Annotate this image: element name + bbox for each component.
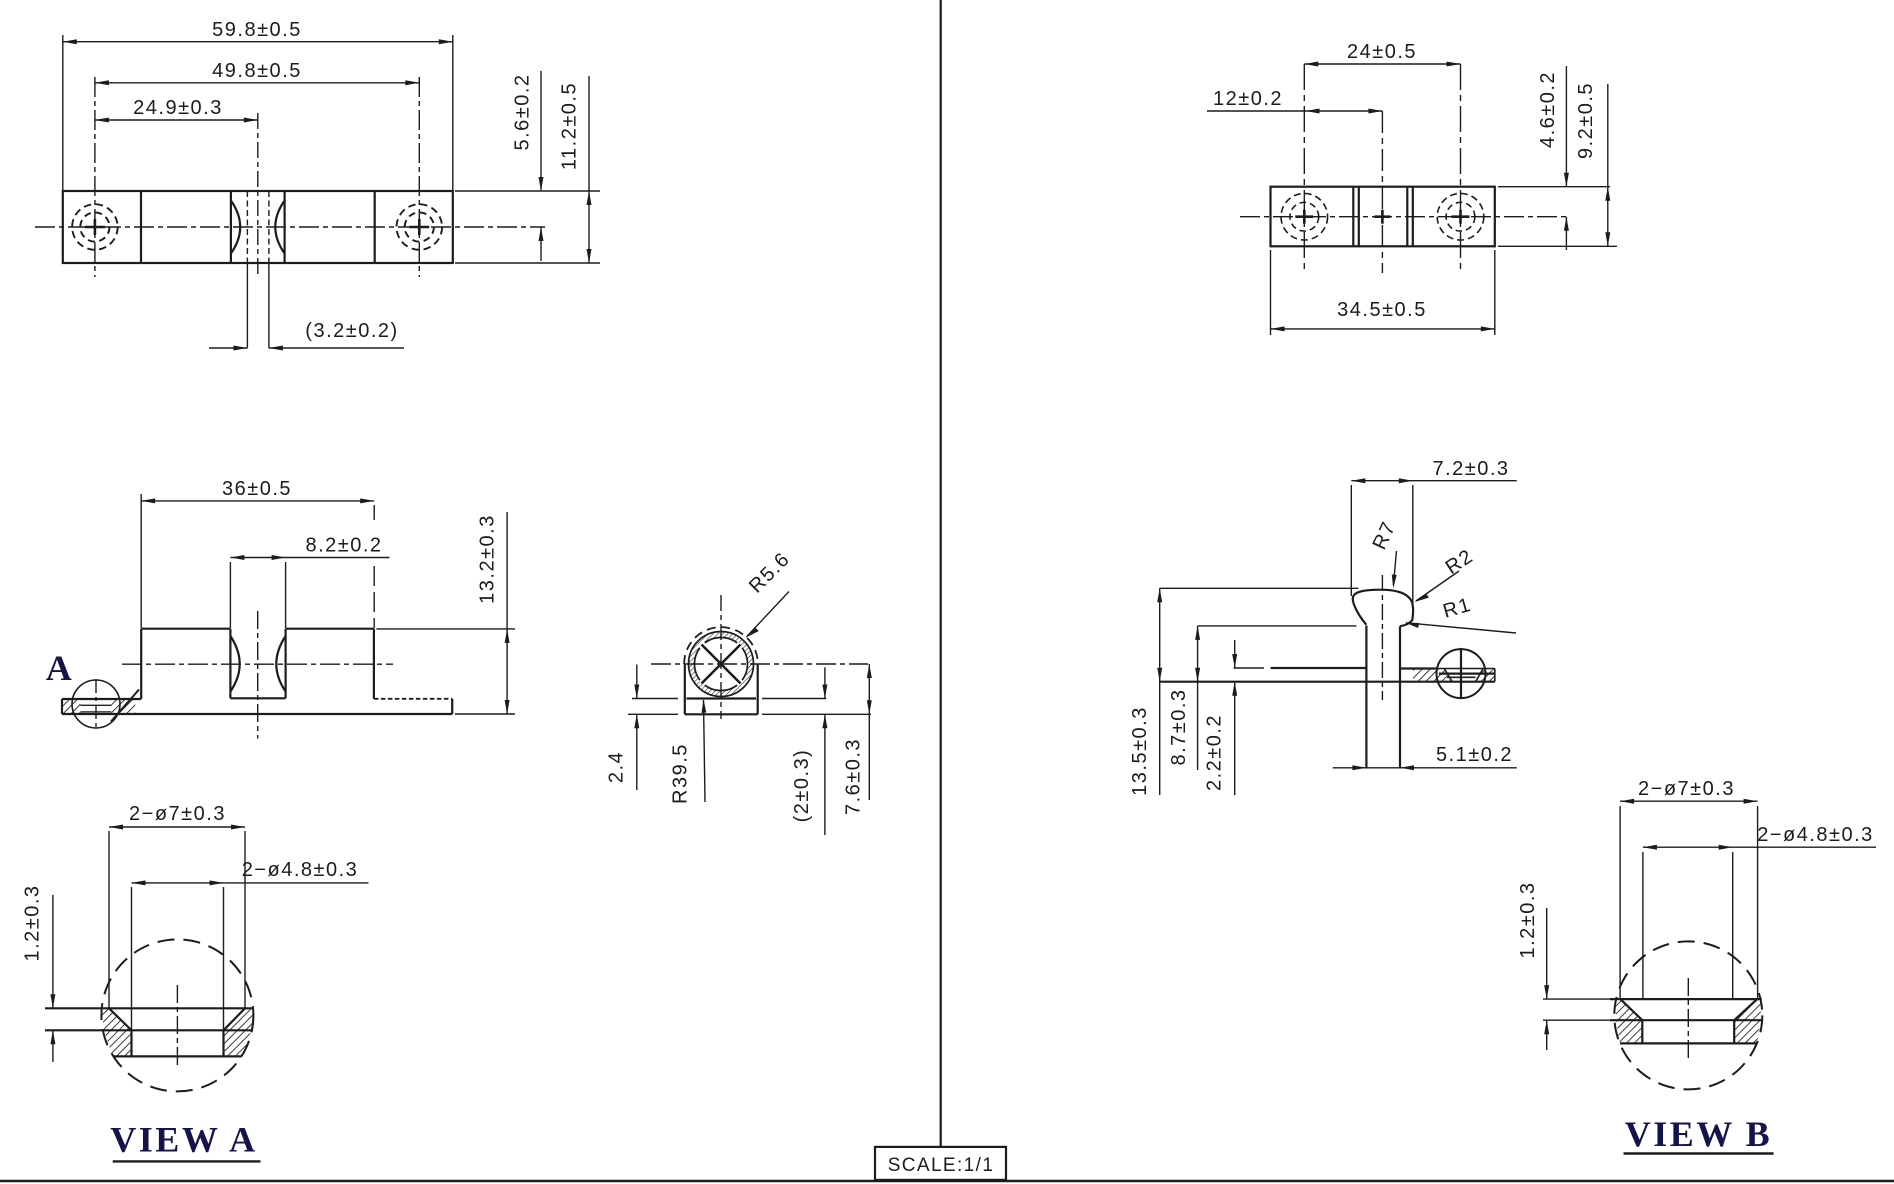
svg-text:VIEW B: VIEW B	[1625, 1114, 1772, 1154]
dim 2-dia4.8 line	[132, 882, 369, 884]
svg-text:13.5±0.3: 13.5±0.3	[1129, 706, 1151, 796]
hole vertical centerline	[176, 985, 178, 1068]
double divider lines left	[1352, 187, 1354, 247]
right tab right edge	[451, 699, 453, 714]
dim 13.5 top extension	[1160, 587, 1359, 589]
bottom edge extension right	[1498, 245, 1617, 247]
svg-text:5.1±0.2: 5.1±0.2	[1436, 744, 1513, 766]
dim 2.2 line	[1234, 640, 1236, 668]
sheet bottom / far rim shoulder line	[1610, 1019, 1762, 1021]
inner bottom extension left	[632, 698, 678, 700]
section hatch right	[1734, 999, 1761, 1043]
roller tube inner circle	[695, 638, 748, 691]
hole section top line	[81, 704, 112, 706]
bottom border line	[0, 1180, 1894, 1183]
notch right edge	[284, 191, 286, 263]
dim 36 extension lines	[140, 494, 142, 628]
dim 1.2 extension lines	[1543, 998, 1610, 1000]
svg-text:R7: R7	[1369, 518, 1401, 553]
striker head outline	[1353, 590, 1413, 627]
outer bottom extension left	[628, 713, 678, 715]
top edge extension right	[1498, 186, 1610, 188]
svg-text:5.6±0.2: 5.6±0.2	[512, 73, 534, 150]
left hole vertical centerline	[94, 77, 96, 277]
serrated tab top edge	[374, 698, 452, 700]
housing dome arc (hidden)	[684, 627, 758, 664]
leader R1	[1406, 623, 1516, 633]
leader R2	[1416, 571, 1459, 601]
hole left hidden countersink circle	[72, 204, 118, 250]
screw vertical centerline	[1460, 648, 1462, 699]
leader R7	[1393, 551, 1396, 585]
dimple bottom face	[1620, 1042, 1757, 1044]
top edge extension right	[455, 190, 600, 192]
svg-text:SCALE:1/1: SCALE:1/1	[888, 1155, 995, 1176]
svg-text:R5.6: R5.6	[745, 548, 795, 598]
roller silhouette arc right	[275, 201, 284, 254]
svg-text:R2: R2	[1442, 545, 1478, 579]
svg-text:A: A	[46, 648, 75, 688]
roller tube outer circle	[689, 632, 754, 697]
hatch strip top edge	[1413, 668, 1495, 670]
roller cross line 1	[702, 645, 741, 684]
dim 3.2 line left segment	[209, 347, 247, 349]
dim 8.2 extension lines	[229, 562, 231, 628]
detail crop circle A	[101, 939, 253, 1091]
hole right hidden countersink circle	[1437, 193, 1484, 240]
dim 2-dia7 line	[1620, 800, 1758, 802]
dim 34.5 extension lines	[1270, 250, 1272, 335]
screw countersink slope left	[1444, 669, 1452, 682]
roller arc right	[276, 636, 285, 692]
section hatch right of hole	[111, 700, 135, 714]
hole left center mark	[85, 226, 105, 229]
svg-text:59.8±0.5: 59.8±0.5	[212, 19, 302, 41]
dim 8.2 line	[230, 557, 389, 559]
roller tube section hatch annulus	[689, 632, 754, 697]
svg-text:7.6±0.3: 7.6±0.3	[843, 738, 865, 815]
section hatch right	[224, 1008, 253, 1056]
bore wall left	[130, 1030, 132, 1056]
middle center mark	[1374, 215, 1390, 218]
hole left hidden countersink circle	[1281, 193, 1328, 240]
countersink slope left	[109, 1008, 132, 1030]
dim 12 line	[1207, 110, 1382, 112]
svg-text:R1: R1	[1441, 594, 1475, 623]
vertical centerline	[257, 611, 259, 739]
dim 2-dia7 extension lines	[108, 831, 110, 1008]
dim 1.2 line	[52, 895, 54, 1008]
dim 8.7 line	[1197, 626, 1199, 770]
dim 3.2 line right segment	[269, 347, 404, 349]
svg-text:2−ø4.8±0.3: 2−ø4.8±0.3	[1757, 824, 1874, 846]
plate section hatch right of screw	[1476, 669, 1495, 682]
svg-text:4.6±0.2: 4.6±0.2	[1537, 71, 1559, 148]
dim 8.7 extension	[1198, 625, 1357, 627]
bore wall left	[1641, 1020, 1643, 1043]
screw horizontal centerline	[1439, 672, 1495, 674]
dim 4.6 line	[1565, 66, 1567, 186]
svg-text:7.2±0.3: 7.2±0.3	[1432, 458, 1509, 480]
dim 9.2 line	[1607, 84, 1609, 246]
svg-text:11.2±0.5: 11.2±0.5	[559, 82, 581, 170]
svg-text:1.2±0.3: 1.2±0.3	[22, 884, 44, 961]
dim 11.2 line	[588, 76, 590, 263]
dim 2-dia4.8 extension lines	[1642, 852, 1644, 999]
svg-text:34.5±0.5: 34.5±0.5	[1337, 299, 1427, 321]
svg-text:8.7±0.3: 8.7±0.3	[1168, 688, 1190, 765]
section divider line	[374, 191, 376, 263]
part body outline (rear view bar)	[1271, 187, 1495, 247]
detail circle A	[72, 680, 120, 728]
double divider lines right	[1406, 187, 1408, 247]
leader R5.6	[747, 592, 790, 637]
dim 5.6 line	[540, 71, 542, 190]
svg-text:2−ø7±0.3: 2−ø7±0.3	[1638, 778, 1735, 800]
dim 7.6 line	[868, 664, 870, 800]
stem dashed centerline	[1381, 575, 1383, 700]
right hole vertical centerline	[1460, 64, 1462, 273]
hole vertical centerline in detail	[95, 679, 97, 729]
housing right wall	[757, 664, 759, 714]
horizontal centerline	[122, 663, 393, 665]
svg-text:36±0.5: 36±0.5	[222, 478, 292, 500]
screw head slot line	[1447, 676, 1476, 678]
horizontal centerline	[651, 663, 868, 665]
svg-text:2.4: 2.4	[606, 751, 628, 783]
housing outer bottom	[685, 713, 758, 715]
left tab left edge	[61, 699, 63, 714]
svg-text:9.2±0.5: 9.2±0.5	[1575, 82, 1597, 159]
svg-text:13.2±0.3: 13.2±0.3	[477, 514, 499, 604]
vertical centerline	[720, 595, 722, 719]
countersink slope left	[1620, 999, 1642, 1020]
dim 2-dia7 extension lines	[1619, 806, 1621, 999]
right hole vertical centerline	[418, 77, 420, 277]
svg-text:24.9±0.3: 24.9±0.3	[133, 97, 223, 119]
VIEW B underline	[1624, 1152, 1774, 1154]
dim 2-dia4.8 line	[1643, 846, 1876, 848]
bore wall right	[222, 1030, 224, 1056]
plate section hatch left of screw	[1413, 669, 1452, 682]
sheet divider line	[940, 0, 942, 1147]
inner bottom extension right	[762, 698, 826, 700]
bore wall right	[1733, 1020, 1735, 1043]
svg-text:49.8±0.5: 49.8±0.5	[212, 60, 302, 82]
left tab top edge	[62, 698, 141, 700]
dim 36 line	[141, 500, 374, 502]
plate right end edge	[1494, 669, 1496, 682]
svg-text:8.2±0.2: 8.2±0.2	[305, 535, 382, 557]
VIEW A underline	[113, 1160, 261, 1162]
dim (2 +-0.3) line	[824, 667, 826, 698]
hole right center mark	[1452, 215, 1470, 218]
svg-text:1.2±0.3: 1.2±0.3	[1517, 881, 1539, 958]
dim 2-dia4.8 extension lines	[131, 887, 133, 1030]
svg-text:12±0.2: 12±0.2	[1213, 88, 1283, 110]
svg-text:2−ø7±0.3: 2−ø7±0.3	[129, 803, 226, 825]
horizontal centerline	[1240, 216, 1568, 218]
svg-text:2.2±0.2: 2.2±0.2	[1204, 714, 1226, 791]
dim 1.2 line	[1546, 908, 1548, 999]
section hatch left	[102, 1008, 132, 1056]
dim 13.5 line	[1159, 588, 1161, 795]
screw head circle	[1437, 649, 1486, 698]
slot extension lines below part	[246, 263, 248, 348]
middle vertical centerline	[1381, 111, 1383, 273]
part body outline (front view bar)	[63, 191, 453, 263]
hole right hidden countersink circle	[397, 204, 443, 250]
sheet top surface line	[45, 1007, 253, 1009]
left hole vertical centerline	[1303, 64, 1305, 273]
roller silhouette arc left	[231, 201, 240, 254]
hole left center mark	[1295, 215, 1313, 218]
hole left hidden bore circle	[1290, 202, 1319, 231]
dim 2.4 line	[636, 665, 638, 699]
dim 13.2 extension lines	[376, 628, 515, 630]
notch vertical centerline	[257, 113, 259, 277]
hidden slot edge right	[268, 191, 270, 263]
svg-text:(3.2±0.2): (3.2±0.2)	[305, 320, 398, 342]
svg-text:2−ø4.8±0.3: 2−ø4.8±0.3	[242, 859, 359, 881]
outer bottom extension right	[762, 713, 871, 715]
bottom edge extension right	[455, 262, 600, 264]
dim 34.5 line	[1271, 328, 1495, 330]
slot right edge	[285, 629, 287, 699]
top face right segment	[286, 628, 374, 630]
dim 59.8 extension lines	[62, 35, 64, 190]
section hatch left of hole	[63, 700, 81, 714]
plate top left segment	[1234, 667, 1264, 669]
leader R39.5	[704, 700, 706, 802]
stem left edge	[1365, 626, 1367, 768]
dim 59.8 line	[63, 41, 453, 43]
dim 24.9 line	[95, 119, 258, 121]
sheet top surface line	[1610, 998, 1762, 1000]
svg-text:(2±0.3): (2±0.3)	[791, 749, 813, 823]
svg-text:24±0.5: 24±0.5	[1347, 41, 1417, 63]
hole vertical centerline	[1687, 978, 1689, 1058]
dim 7.2 extension lines	[1350, 485, 1352, 596]
notch left edge	[230, 191, 232, 263]
hole right hidden bore circle	[405, 212, 434, 241]
countersink slope right	[1734, 999, 1757, 1020]
right body edge	[373, 629, 375, 699]
dimple bottom face	[113, 1055, 242, 1057]
dim 7.2 line	[1351, 480, 1517, 482]
slot left edge	[229, 629, 231, 699]
countersink slope right	[224, 1008, 246, 1030]
roller cross white halo	[702, 645, 741, 684]
detail crop circle B	[1614, 941, 1762, 1089]
plate top right segment	[1401, 667, 1438, 669]
housing inner bottom	[687, 697, 757, 699]
dim 24 line	[1304, 63, 1460, 65]
stem right edge	[1399, 626, 1401, 768]
left body edge	[140, 629, 142, 699]
section cut diagonal line	[111, 690, 139, 722]
roller arc left	[230, 636, 239, 692]
horizontal centerline	[35, 226, 545, 228]
hole section bottom line	[81, 711, 112, 713]
svg-text:R39.5: R39.5	[670, 743, 692, 804]
top face left segment	[141, 628, 230, 630]
slot bottom	[230, 697, 285, 699]
plate bottom line	[1160, 681, 1495, 683]
sheet bottom / far rim shoulder line	[45, 1029, 253, 1031]
bottom face	[62, 713, 452, 715]
hole right center mark	[409, 226, 429, 229]
housing left wall	[684, 664, 686, 714]
hidden slot edge left	[246, 191, 248, 263]
screw countersink slope right	[1476, 669, 1483, 682]
hole right hidden bore circle	[1446, 202, 1475, 231]
scale box	[875, 1147, 1006, 1180]
roller cross line 2	[702, 645, 741, 684]
section hatch left	[1616, 999, 1643, 1043]
svg-text:VIEW A: VIEW A	[110, 1120, 257, 1160]
dim 2-dia7 line	[109, 826, 245, 828]
hole left hidden bore circle	[80, 212, 109, 241]
section divider line	[140, 191, 142, 263]
dim 13.2 line	[506, 512, 508, 714]
dim 5.1 line	[1333, 767, 1517, 769]
dim 49.8 line	[95, 82, 419, 84]
